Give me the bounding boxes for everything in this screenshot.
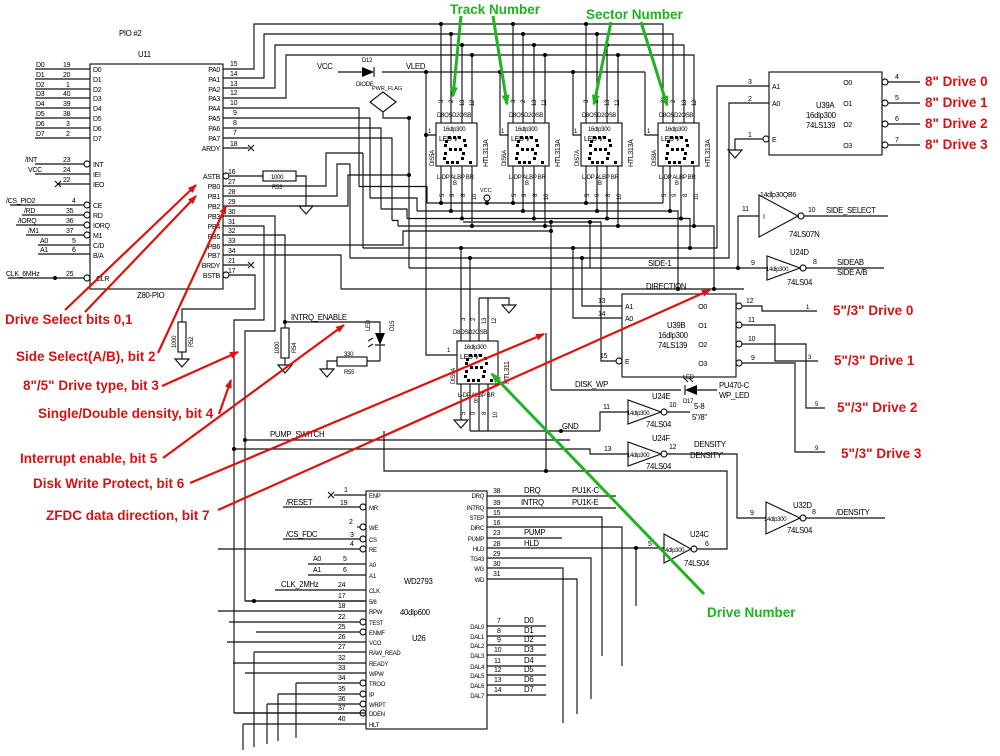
svg-text:39: 39	[63, 101, 71, 108]
svg-text:ENMF: ENMF	[369, 631, 385, 637]
svg-text:8" Drive 3: 8" Drive 3	[925, 137, 988, 152]
svg-text:D4: D4	[524, 656, 534, 665]
node D0-D7 input stubs U11	[35, 62, 90, 138]
wire U26 WD down	[487, 571, 577, 714]
svg-text:U26: U26	[412, 634, 425, 643]
svg-text:DIS6A: DIS6A	[502, 150, 508, 166]
wire U26 READY down	[233, 655, 366, 663]
wire BSTB loop to R52	[182, 275, 255, 322]
wire DISK_WP net	[551, 380, 681, 390]
inverter U32D /density	[750, 501, 885, 535]
svg-text:A1: A1	[625, 304, 633, 311]
svg-text:PUMP: PUMP	[524, 528, 545, 537]
svg-text:10: 10	[669, 402, 677, 409]
svg-text:9: 9	[751, 355, 755, 362]
svg-text:PIO #2: PIO #2	[119, 29, 141, 38]
svg-text:RD: RD	[93, 213, 103, 220]
wire PA2 top bus to display pin3 column	[223, 43, 684, 123]
wire U26 TEST stub	[229, 614, 360, 622]
svg-text:R52: R52	[189, 336, 195, 347]
svg-text:8" Drive 2: 8" Drive 2	[925, 116, 988, 131]
svg-text:26: 26	[338, 634, 346, 641]
svg-text:U39B: U39B	[667, 321, 685, 330]
svg-text:DAL1: DAL1	[470, 635, 485, 641]
wire U26 DAL data stubs D0-D7	[487, 616, 546, 695]
svg-text:R55: R55	[344, 370, 355, 376]
svg-text:5"/8": 5"/8"	[692, 413, 707, 422]
wire PA5 riser to display pin9 feed line	[223, 118, 370, 198]
svg-text:IEO: IEO	[93, 182, 105, 189]
decoder U39B 74LS139	[598, 294, 742, 377]
wire U26 5/8 stub	[245, 593, 366, 603]
svg-text:PA4: PA4	[208, 106, 220, 113]
svg-text:DENSITY: DENSITY	[694, 440, 727, 449]
svg-text:IORQ: IORQ	[93, 223, 111, 230]
svg-text:B: B	[598, 181, 602, 187]
svg-text:8"/5" Drive type, bit 3: 8"/5" Drive type, bit 3	[23, 378, 159, 393]
svg-text:DRQ: DRQ	[524, 486, 541, 495]
wire PB7 to DIRECTION line	[223, 255, 744, 291]
inverter U24F density	[604, 434, 766, 518]
node CLK_6MHz stub	[6, 271, 84, 280]
svg-text:38: 38	[63, 111, 71, 118]
7-segment display DIS8A	[652, 99, 712, 200]
node PB pin number labels	[228, 169, 236, 275]
svg-text:D0: D0	[36, 62, 45, 69]
svg-text:PUMP: PUMP	[468, 537, 484, 543]
svg-text:PU1K-C: PU1K-C	[572, 486, 599, 495]
wire PWR_FLAG column vertical to SIDE-1 line	[409, 118, 767, 270]
svg-text:A1: A1	[40, 247, 48, 254]
svg-text:12: 12	[230, 90, 238, 97]
svg-text:5: 5	[343, 556, 347, 563]
svg-text:CE: CE	[93, 203, 103, 210]
svg-text:16: 16	[493, 520, 501, 527]
svg-text:5: 5	[72, 238, 76, 245]
svg-text:5"/3" Drive 0: 5"/3" Drive 0	[833, 303, 913, 318]
svg-text:14dlp300: 14dlp300	[627, 453, 650, 459]
annotation red arrow density bit4	[219, 380, 231, 414]
svg-text:INT: INT	[93, 162, 104, 169]
svg-text:23: 23	[493, 530, 501, 537]
svg-text:2: 2	[748, 96, 752, 103]
wire display pin8 bus	[381, 166, 692, 250]
svg-text:14: 14	[598, 311, 606, 318]
wire U26 DIRC down	[487, 520, 622, 666]
svg-text:WP_LED: WP_LED	[719, 391, 750, 400]
svg-text:WE: WE	[369, 526, 378, 532]
svg-text:Single/Double density, bit 4: Single/Double density, bit 4	[38, 406, 214, 421]
svg-text:1000: 1000	[172, 335, 178, 348]
svg-text:14dlp300: 14dlp300	[766, 267, 789, 273]
svg-text:CLK: CLK	[369, 589, 380, 595]
svg-text:U32D: U32D	[793, 501, 812, 510]
wire bus B2 under displays	[463, 220, 601, 268]
svg-text:PU470-C: PU470-C	[719, 381, 750, 390]
svg-text:6: 6	[895, 116, 899, 123]
svg-text:D4: D4	[93, 106, 102, 113]
svg-text:5"/3" Drive 3: 5"/3" Drive 3	[841, 446, 922, 461]
wire U26 RAW_READ down	[254, 644, 366, 747]
wire display pin9 bus	[370, 166, 680, 291]
svg-text:DAL7: DAL7	[470, 694, 485, 700]
svg-text:D12: D12	[362, 58, 373, 64]
svg-text:U24D: U24D	[790, 248, 809, 257]
svg-text:D8OSD2OSB: D8OSD2OSB	[582, 113, 616, 119]
svg-text:DAL5: DAL5	[470, 674, 485, 680]
svg-text:DAL6: DAL6	[470, 684, 485, 690]
svg-text:3: 3	[66, 121, 70, 128]
svg-text:PB1: PB1	[208, 194, 221, 201]
svg-text:6: 6	[343, 567, 347, 574]
svg-text:LED: LED	[366, 319, 372, 331]
svg-text:U39A: U39A	[816, 101, 835, 110]
svg-text:TEST: TEST	[369, 621, 384, 627]
wire VCC VLED rail with diode D12	[317, 58, 645, 88]
svg-text:D8OSD2OSB: D8OSD2OSB	[659, 113, 693, 119]
wire U26 HLT down	[243, 716, 366, 750]
wire U26 WE stub	[349, 519, 360, 527]
svg-text:30: 30	[228, 209, 236, 216]
svg-text:D1: D1	[524, 626, 533, 635]
wire U26 STEP down	[487, 510, 602, 656]
chip U26 WD2793 body	[360, 491, 487, 729]
svg-text:PA6: PA6	[208, 126, 220, 133]
svg-text:29: 29	[493, 551, 501, 558]
wire PA3 top bus to display pin4 column	[223, 53, 694, 123]
wire display pin10 bus	[392, 166, 716, 291]
svg-text:HTL313A: HTL313A	[555, 139, 562, 167]
resistor R52 with ground	[172, 322, 195, 367]
svg-text:C/D: C/D	[93, 243, 104, 250]
svg-text:O1: O1	[843, 101, 852, 108]
svg-text:DENSITY': DENSITY'	[690, 451, 724, 460]
led D15	[366, 319, 396, 361]
svg-text:9: 9	[751, 260, 755, 267]
svg-text:3: 3	[748, 79, 752, 86]
wire PA7 riser to display pin10 feed line	[223, 138, 392, 221]
svg-text:ASTB: ASTB	[203, 174, 221, 181]
svg-text:U11: U11	[138, 50, 151, 59]
svg-text:DIS7A: DIS7A	[575, 150, 581, 166]
svg-text:A0: A0	[40, 238, 48, 245]
svg-text:VCC: VCC	[317, 62, 333, 71]
8 inch drive red labels	[925, 74, 988, 152]
svg-text:/CS_PIO2: /CS_PIO2	[6, 198, 36, 205]
wire VLED drops to display pin1 stubs	[424, 70, 658, 355]
wire U26 WRPT down	[267, 696, 360, 744]
wire PB1 staircase	[223, 164, 350, 196]
wire U26 RPW stub	[218, 603, 366, 611]
svg-text:DIS8A: DIS8A	[652, 150, 658, 166]
wire PB4 drop to DDEN	[223, 226, 264, 713]
svg-text:D6: D6	[524, 675, 533, 684]
annotation green sector number arrows	[586, 7, 684, 105]
svg-text:HTL313A: HTL313A	[705, 139, 712, 167]
svg-text:3: 3	[350, 532, 354, 539]
svg-text:22: 22	[338, 614, 346, 621]
svg-text:PA0: PA0	[208, 67, 220, 74]
svg-text:12: 12	[494, 667, 502, 674]
svg-text:74LS04: 74LS04	[787, 526, 813, 535]
svg-text:GND: GND	[562, 422, 579, 431]
svg-text:/IORQ: /IORQ	[18, 218, 37, 225]
svg-text:2: 2	[349, 519, 353, 526]
svg-text:DAL2: DAL2	[470, 644, 485, 650]
svg-text:D1: D1	[93, 77, 102, 84]
wire INTRQ_ENABLE net	[285, 313, 380, 333]
svg-text:24: 24	[338, 582, 346, 589]
wire DIS9A bottom pins to GND stub	[454, 384, 600, 433]
svg-text:HLD: HLD	[524, 539, 539, 548]
svg-text:30: 30	[493, 561, 501, 568]
svg-text:12: 12	[746, 298, 754, 305]
svg-text:29: 29	[228, 199, 236, 206]
svg-text:WRPT: WRPT	[369, 703, 386, 709]
svg-text:5: 5	[648, 541, 652, 548]
svg-text:VCC: VCC	[480, 188, 492, 194]
svg-text:A1: A1	[313, 567, 321, 574]
wire U26 INTRQ PU1K-E net	[487, 498, 616, 508]
svg-text:SIDE-1: SIDE-1	[648, 259, 671, 268]
svg-text:4: 4	[895, 74, 899, 81]
annotation red arrow zfdc direction bit7	[218, 290, 710, 510]
svg-text:BSTB: BSTB	[203, 273, 221, 280]
wire U39A E to ground	[728, 139, 763, 158]
svg-text:PA3: PA3	[208, 96, 220, 103]
svg-text:ARDY: ARDY	[202, 146, 221, 153]
svg-text:6: 6	[72, 247, 76, 254]
svg-text:74LS04: 74LS04	[646, 420, 672, 429]
wire U39B E riser	[601, 222, 616, 361]
svg-text:/INT: /INT	[25, 157, 38, 164]
svg-text:31: 31	[228, 219, 236, 226]
svg-text:5: 5	[895, 95, 899, 102]
svg-text:DAL3: DAL3	[470, 654, 485, 660]
svg-text:/RD: /RD	[24, 208, 35, 215]
svg-text:74LS04: 74LS04	[787, 278, 813, 287]
wire U26 TG43 down	[487, 551, 591, 699]
svg-text:O0: O0	[698, 304, 707, 311]
wire U26 WG down	[487, 561, 563, 723]
svg-text:25: 25	[66, 271, 74, 278]
svg-text:DDEN: DDEN	[369, 712, 385, 718]
svg-text:CLK_6MHz: CLK_6MHz	[6, 271, 40, 278]
svg-text:DIRECTION: DIRECTION	[646, 282, 686, 291]
svg-text:18: 18	[230, 141, 238, 148]
svg-text:IP: IP	[369, 693, 374, 699]
svg-text:B/A: B/A	[93, 253, 104, 260]
inverter U24C	[648, 530, 710, 568]
wire U26 VCO stub	[227, 634, 366, 642]
svg-text:PWR_FLAG: PWR_FLAG	[372, 86, 402, 92]
svg-text:D3: D3	[36, 91, 45, 98]
svg-text:15: 15	[493, 510, 501, 517]
svg-text:14: 14	[494, 687, 502, 694]
wire PA0 top bus to display pin1 column	[223, 22, 663, 123]
svg-text:BRDY: BRDY	[202, 263, 221, 270]
svg-text:28: 28	[493, 541, 501, 548]
wire L1 bus feeding U39A A1	[363, 86, 769, 250]
svg-text:74LS139: 74LS139	[658, 341, 687, 350]
svg-text:11: 11	[748, 317, 755, 324]
svg-text:HTL313A: HTL313A	[628, 139, 635, 167]
svg-text:D0: D0	[93, 67, 102, 74]
svg-text:PB0: PB0	[208, 184, 221, 191]
svg-text:B: B	[453, 181, 457, 187]
svg-text:PB2: PB2	[208, 204, 221, 211]
svg-text:O2: O2	[843, 122, 852, 129]
svg-text:40dlp600: 40dlp600	[400, 608, 431, 617]
svg-text:Track Number: Track Number	[450, 2, 541, 17]
svg-text:D7: D7	[93, 136, 102, 143]
svg-text:B: B	[474, 399, 478, 405]
svg-text:DIS5A: DIS5A	[430, 150, 436, 166]
svg-text:Sector Number: Sector Number	[586, 7, 684, 22]
svg-text:RE: RE	[369, 548, 377, 554]
svg-text:U24C: U24C	[690, 530, 709, 539]
svg-text:READY: READY	[369, 662, 388, 668]
svg-text:DAL4: DAL4	[470, 665, 485, 671]
svg-text:32: 32	[338, 655, 346, 662]
svg-text:22: 22	[63, 177, 71, 184]
svg-text:11: 11	[603, 404, 610, 411]
svg-text:D6: D6	[93, 126, 102, 133]
svg-text:CS: CS	[369, 538, 377, 544]
svg-text:VCO: VCO	[369, 641, 382, 647]
svg-text:A0: A0	[313, 556, 321, 563]
svg-text:STEP: STEP	[470, 516, 485, 522]
svg-text:U24F: U24F	[652, 434, 670, 443]
svg-text:CLK_2MHz: CLK_2MHz	[281, 580, 319, 589]
svg-text:Interrupt enable, bit 5: Interrupt enable, bit 5	[20, 451, 158, 466]
svg-text:19: 19	[63, 62, 71, 69]
svg-text:17: 17	[228, 268, 236, 275]
svg-text:D8OSD2OSB: D8OSD2OSB	[509, 113, 543, 119]
svg-text:PB6: PB6	[208, 244, 221, 251]
svg-text:9: 9	[497, 637, 501, 644]
wire U26 MR /RESET stub	[283, 498, 360, 507]
svg-text:19: 19	[340, 500, 348, 507]
wire U26 DRQ PU1K-C net	[487, 486, 616, 496]
svg-text:Z80-PIO: Z80-PIO	[137, 291, 165, 300]
7-segment display DIS6A	[502, 99, 562, 200]
annotation red arrow drive select bit1	[85, 196, 196, 312]
svg-text:RPW: RPW	[369, 610, 383, 616]
svg-text:20: 20	[63, 72, 71, 79]
7-segment display DIS9A drive number	[447, 317, 511, 418]
svg-text:A0: A0	[772, 101, 780, 108]
led D17 WP_LED with labels PU470-C	[683, 375, 750, 405]
node /INT VCC IEO stubs	[25, 157, 90, 187]
svg-text:INTRQ: INTRQ	[521, 498, 544, 507]
svg-text:Side Select(A/B), bit 2: Side Select(A/B), bit 2	[16, 349, 156, 364]
svg-text:WPW: WPW	[369, 672, 384, 678]
svg-text:6: 6	[705, 541, 709, 548]
svg-text:O2: O2	[698, 342, 707, 349]
wire U26 IP down	[278, 686, 360, 741]
svg-text:21: 21	[228, 258, 236, 265]
svg-text:27: 27	[338, 644, 346, 651]
5/3 inch drive red labels	[833, 303, 922, 461]
svg-text:D15: D15	[390, 320, 396, 331]
wire U26 ENP stub with x	[328, 487, 366, 498]
svg-text:A0: A0	[369, 563, 377, 569]
svg-text:4: 4	[350, 541, 354, 548]
svg-text:74LS04: 74LS04	[684, 559, 710, 568]
svg-text:74LS04: 74LS04	[646, 462, 672, 471]
svg-text:330: 330	[344, 352, 354, 358]
svg-text:28: 28	[228, 189, 236, 196]
svg-text:8: 8	[813, 259, 817, 266]
svg-text:5"/3" Drive 1: 5"/3" Drive 1	[834, 353, 915, 368]
svg-text:/M1: /M1	[28, 228, 39, 235]
buffer 74LS07N side select	[738, 192, 888, 268]
svg-text:SIDE A/B: SIDE A/B	[837, 268, 867, 277]
svg-text:Drive Select bits 0,1: Drive Select bits 0,1	[5, 312, 133, 327]
svg-text:D5: D5	[93, 116, 102, 123]
wire U26 CS /CS_FDC stub	[283, 530, 360, 539]
wire PUMP_SWITCH line	[243, 430, 570, 601]
svg-text:34: 34	[338, 675, 346, 682]
wire U26 DDEN stub	[234, 705, 360, 713]
svg-text:35: 35	[338, 686, 346, 693]
svg-text:37: 37	[338, 705, 346, 712]
svg-text:D1: D1	[36, 72, 45, 79]
inverter U24E 5/8	[603, 392, 707, 429]
svg-text:7: 7	[497, 618, 501, 625]
wire bit4 line to U24F input	[232, 447, 628, 713]
svg-text:10: 10	[808, 207, 816, 214]
svg-text:RAW_READ: RAW_READ	[369, 651, 401, 657]
svg-text:/CS_FDC: /CS_FDC	[286, 530, 318, 539]
svg-text:WG: WG	[474, 567, 484, 573]
svg-text:D8OSD2OSB: D8OSD2OSB	[437, 113, 471, 119]
svg-text:PA2: PA2	[208, 87, 220, 94]
svg-text:SIDEAB: SIDEAB	[837, 258, 864, 267]
svg-text:13: 13	[598, 298, 606, 305]
wire PA1 top bus to display pin2 column	[223, 32, 673, 123]
svg-text:33: 33	[228, 238, 236, 245]
svg-text:8: 8	[233, 120, 237, 127]
svg-text:27: 27	[228, 179, 236, 186]
resistor R55 with ground	[320, 352, 380, 377]
wire U39B outputs to drive stubs	[742, 298, 825, 452]
svg-text:5"/3" Drive 2: 5"/3" Drive 2	[837, 400, 917, 415]
svg-text:DISK_WP: DISK_WP	[575, 380, 608, 389]
wire U26 PUMP net	[487, 528, 562, 538]
wire U26 ENMF stub	[256, 624, 360, 632]
svg-text:D5: D5	[36, 111, 45, 118]
wire PB0 staircase	[223, 153, 363, 186]
wire U26 TROO down	[296, 675, 360, 738]
svg-text:31: 31	[493, 571, 501, 578]
svg-text:Disk Write Protect, bit 6: Disk Write Protect, bit 6	[33, 476, 185, 491]
svg-text:HLD: HLD	[473, 547, 485, 553]
svg-text:5-8: 5-8	[694, 402, 704, 411]
svg-text:D7: D7	[524, 685, 533, 694]
svg-text:16dlp300: 16dlp300	[806, 111, 837, 120]
svg-text:E: E	[772, 137, 777, 144]
wire U26 RE stub	[218, 541, 360, 549]
resistor R53 on ASTB with ground	[229, 171, 313, 214]
wire PB5 drop to INTRQ_ENABLE	[223, 235, 287, 324]
annotation red arrow interrupt enable bit5	[163, 325, 344, 458]
svg-text:9: 9	[750, 510, 754, 517]
svg-text:7: 7	[895, 137, 899, 144]
7-segment display DIS5A	[430, 99, 490, 200]
svg-text:14: 14	[230, 71, 238, 78]
